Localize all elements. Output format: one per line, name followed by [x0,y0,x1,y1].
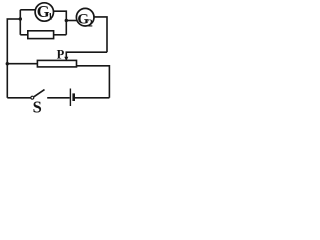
wire: resistor left lead [20,34,28,36]
wire: P right lead down right side [77,66,110,98]
wire: left rail vertical [6,19,8,98]
node: right junction dot [65,19,68,22]
wire: resistor right lead [54,34,67,36]
wire: top feed to G1 [20,9,35,11]
potentiometer P body [37,60,76,67]
svg-text:P: P [57,47,65,61]
wire: battery to switch [47,97,69,99]
wire: G1 output down to right node [53,11,66,35]
battery positive plate (long thin) [69,89,71,107]
wire: left branch vertical (G1/resistor split) [19,10,21,35]
galvanometer G1 [35,3,53,21]
node: left junction dot [19,17,22,20]
wire: G2 to right rail down [94,17,107,52]
node: left rail / P junction dot [6,62,9,65]
svg-text:2: 2 [88,19,93,30]
resistor R body (shunt under G1) [28,31,54,39]
battery negative plate (short thick) [72,93,75,101]
potentiometer wiper arrow head [64,57,68,61]
wire: P left lead [7,63,37,65]
wire: switch to left rail [7,97,31,99]
wire: node to G2 [66,20,76,22]
svg-text:S: S [33,98,42,115]
galvanometer G2 [76,8,94,26]
wire: top-left connector [7,18,21,20]
switch S pivot contact circle [31,96,34,99]
svg-text:1: 1 [48,12,53,22]
wire: wiper feed across [66,52,107,57]
switch S blade [34,90,45,97]
wire: bottom right to battery [75,97,110,99]
